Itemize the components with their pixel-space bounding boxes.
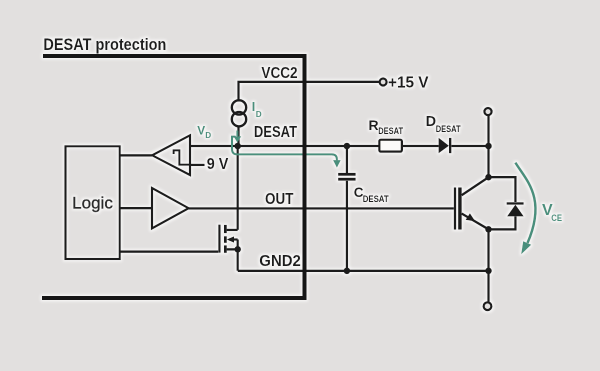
buffer amplifier	[152, 188, 189, 228]
svg-text:DESAT protection: DESAT protection	[43, 35, 166, 54]
wire VCC2 rail to +15V terminal	[239, 82, 380, 101]
wire mosfet source to GND2	[237, 249, 239, 270]
wire current source to DESAT node	[237, 126, 239, 146]
gate driver IC boundary	[42, 56, 305, 298]
terminal collector	[484, 108, 491, 115]
svg-text:9 V: 9 V	[207, 156, 229, 173]
wire DESAT line (comparator input to resistor)	[190, 145, 379, 147]
svg-text:D: D	[205, 131, 211, 140]
svg-text:D: D	[256, 110, 262, 119]
node emitter rail to GND2 junction	[485, 268, 492, 275]
wire resistor to diode	[402, 145, 439, 147]
svg-text:VCC2: VCC2	[261, 65, 297, 82]
IGBT collector-emitter rail	[487, 115, 489, 302]
wire OUT line to IGBT gate	[189, 207, 454, 209]
svg-text:DESAT: DESAT	[363, 194, 390, 204]
svg-text:OUT: OUT	[265, 191, 294, 208]
resistor RDESAT	[379, 140, 402, 152]
node CDESAT tap	[344, 143, 351, 150]
9V reference stub	[190, 164, 205, 166]
terminal emitter	[484, 302, 492, 310]
svg-text:DESAT: DESAT	[436, 124, 461, 134]
capacitor CDESAT	[346, 146, 348, 271]
wire diode to collector rail	[451, 145, 488, 147]
comparator with hysteresis	[152, 135, 190, 175]
node diode to collector junction	[485, 143, 492, 150]
svg-text:I: I	[252, 100, 256, 114]
VCE measurement arrow (teal)	[515, 163, 535, 243]
svg-text:Logic: Logic	[72, 193, 113, 212]
wire logic to buffer	[120, 207, 152, 209]
svg-text:DESAT: DESAT	[254, 124, 298, 141]
svg-text:+15 V: +15 V	[388, 75, 429, 92]
svg-text:GND2: GND2	[259, 253, 301, 270]
svg-text:R: R	[369, 117, 379, 133]
node emitter junction	[485, 226, 492, 233]
wire comparator output to logic	[120, 154, 152, 156]
wire GND2 line	[238, 270, 489, 272]
node mosfet source junction	[234, 246, 241, 253]
IGBT Q2	[455, 177, 489, 229]
node DESAT junction	[234, 143, 241, 150]
diode DDESAT	[439, 138, 449, 154]
node CDESAT to GND2 junction	[344, 268, 351, 275]
svg-text:DESAT: DESAT	[378, 126, 403, 136]
wire DESAT node to mosfet drain	[237, 146, 239, 230]
mosfet pull-down Q1	[219, 225, 237, 253]
freewheeling diode	[489, 177, 516, 229]
terminal +15 V	[380, 79, 387, 86]
current source ID	[232, 100, 246, 114]
svg-text:D: D	[426, 114, 436, 130]
current flow arrow ID (teal)	[232, 131, 337, 161]
wire logic to mosfet gate	[120, 251, 218, 253]
logic block	[66, 146, 120, 259]
svg-text:V: V	[197, 123, 205, 137]
node collector junction	[485, 174, 492, 181]
svg-text:CE: CE	[551, 213, 562, 224]
